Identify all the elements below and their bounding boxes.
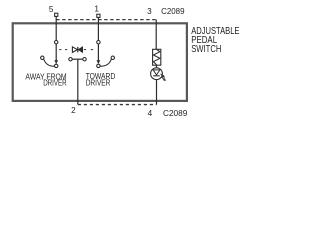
svg-text:DRIVER: DRIVER: [43, 79, 66, 88]
svg-text:C2089: C2089: [161, 7, 185, 16]
svg-text:DRIVER: DRIVER: [86, 79, 111, 88]
svg-text:3: 3: [147, 7, 152, 16]
svg-text:SWITCH: SWITCH: [191, 44, 221, 55]
svg-text:4: 4: [148, 109, 153, 118]
svg-text:C2089: C2089: [163, 109, 188, 118]
svg-text:1: 1: [94, 5, 99, 14]
svg-text:5: 5: [49, 5, 54, 14]
svg-text:2: 2: [71, 106, 76, 115]
